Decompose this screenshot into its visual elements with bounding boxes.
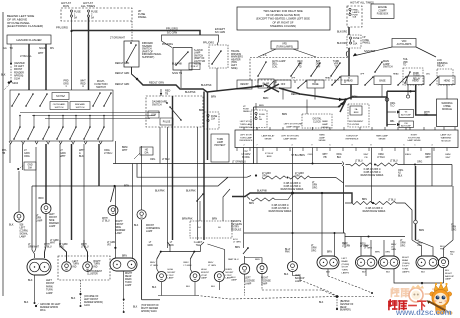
mf row2 contact 1 (14, 127, 20, 139)
park turn relay dashed box (403, 68, 423, 85)
svg-text:PPL/ORG: PPL/ORG (203, 42, 214, 45)
pill left rear stop turn (317, 256, 339, 269)
lamp left license (239, 264, 249, 274)
LCD dimming relay dashed box (437, 69, 453, 85)
module drop x257 (256, 148, 258, 164)
wire drop mf 4 heavy (45, 144, 47, 204)
digital clock dashed box (302, 114, 332, 128)
mf row2 contact 2 (28, 127, 34, 139)
wire x142 to cornering lamp (141, 146, 143, 210)
heavy bus hazard to right (137, 79, 262, 92)
module drop x404 (403, 148, 405, 165)
resistor R4 rejoin (275, 193, 293, 200)
svg-text:www.dzsc.com: www.dzsc.com (395, 308, 452, 317)
svg-text:BLK/ORG: BLK/ORG (337, 43, 347, 45)
lamp left front side marker (14, 212, 24, 222)
svg-text:BLK/PNK: BLK/PNK (440, 246, 445, 251)
turn sw contact 2 (311, 63, 320, 76)
crossover of hazard and turn feeds (264, 84, 279, 92)
fuse A dashed box (347, 35, 361, 48)
vfd fan left (258, 49, 276, 57)
svg-text:2T ORG/WHT: 2T ORG/WHT (110, 37, 126, 40)
warning chime module box (437, 99, 458, 127)
heavy wire fuse A down (348, 48, 350, 76)
run lineC y186 (32, 177, 228, 186)
svg-text:RED/TB: RED/TB (255, 85, 265, 88)
outboard switch box (50, 102, 68, 110)
small box blair (258, 79, 274, 88)
svg-text:PART BLU: PART BLU (228, 258, 239, 261)
svg-text:HEAD: HEAD (346, 80, 353, 83)
module drop x371 (371, 148, 373, 204)
lamp high mount 2 (190, 272, 200, 282)
wire pill3 right (334, 233, 336, 256)
svg-text:BASE: BASE (379, 80, 386, 83)
mf contact 4 (93, 93, 100, 106)
svg-text:BLK/PNK: BLK/PNK (257, 190, 268, 193)
connector bulge (346, 51, 347, 57)
svg-text:BRN: BRN (362, 199, 367, 201)
resistor R5 (350, 163, 372, 166)
svg-text:BLK: BLK (211, 286, 216, 288)
connector contact S4 (197, 194, 203, 201)
module drop x432 (431, 148, 433, 187)
wire from flasher pin 1 (10, 44, 12, 63)
svg-text:BRN: BRN (352, 96, 357, 99)
svg-text:1 A: 1 A (263, 54, 267, 57)
wire hazard sw down (132, 67, 138, 79)
heavy stub up x415 (415, 85, 417, 92)
bracket wire to stop lamp switches (162, 35, 219, 41)
splice to gnd dia (17, 168, 19, 170)
wire stop sw down (180, 70, 182, 88)
svg-text:BRN: BRN (211, 96, 216, 99)
lamp high mount 3 (214, 272, 224, 282)
box drops to bus (282, 88, 284, 100)
small box resist (237, 80, 252, 89)
pill grounds right (327, 269, 329, 276)
switch3 contact (212, 51, 221, 64)
watermark ghost logo (387, 285, 460, 318)
HO DIA box (140, 147, 153, 155)
svg-text:BRN: BRN (39, 198, 44, 200)
wire clock drop (306, 100, 308, 115)
contact off (267, 81, 274, 88)
VFD autolamps box (392, 39, 416, 48)
instrument cluster dashed box (58, 256, 110, 280)
instrument cluster dashed box (348, 104, 369, 127)
svg-text:S/BLU: S/BLU (405, 154, 412, 156)
svg-text:6.195 Ω 6.805 Ω6.065 Ω 6.5: 6.195 Ω 6.805 Ω6.065 Ω 6.595 ΩRESISTANCE… (269, 205, 292, 213)
fuse 2A box (350, 106, 362, 115)
fuse A symbol (349, 37, 351, 39)
hm contact 1 (160, 251, 162, 253)
svg-text:RED/LT GRN: RED/LT GRN (115, 83, 130, 86)
heavy bus right of junction (346, 97, 388, 100)
svg-text:HAZARD FLASHER: HAZARD FLASHER (16, 38, 41, 42)
lamp out warning module box (235, 130, 458, 148)
svg-text:ORG: ORG (417, 162, 422, 164)
trunk x176 (172, 96, 174, 240)
VFD turn lamps box (271, 41, 298, 49)
svg-text:BLK: BLK (24, 302, 29, 304)
wire drop mf 8 heavy (98, 144, 100, 186)
switch3 dashed box (209, 45, 228, 68)
svg-text:PPL/ORG: PPL/ORG (166, 27, 178, 31)
run after R2 (310, 177, 336, 179)
headlight switch contact (170, 107, 181, 120)
watermark red text weiku yixia (388, 302, 390, 310)
mf row2 stubs (19, 116, 21, 128)
mf crossbar 1 (20, 112, 160, 114)
lower feed line (254, 100, 346, 108)
drop to sw3 (217, 41, 219, 45)
svg-text:BRN/WHT: BRN/WHT (122, 146, 128, 152)
node r1 mid (287, 177, 289, 179)
svg-text:TURN/STOPREFERENCE: TURN/STOPREFERENCE (346, 136, 359, 141)
svg-text:S/GN BRT: S/GN BRT (364, 50, 376, 53)
heavy diag stub 1 (338, 101, 346, 107)
wire backup right (444, 240, 454, 257)
node resistor feed (255, 174, 257, 176)
diag feed pill1 (45, 214, 47, 259)
hm wire 3 (208, 244, 225, 250)
wire pillA 2 (370, 240, 372, 256)
pulse box (160, 118, 173, 125)
node main bus junction (344, 98, 347, 101)
mf row2 contact 4 (57, 127, 63, 139)
ground drop (336, 297, 338, 309)
svg-text:RED/LT GRN: RED/LT GRN (115, 72, 130, 75)
turn lamp box right (211, 134, 229, 162)
svg-text:BLK: BLK (133, 307, 138, 309)
svg-text:BRN: BRN (419, 229, 424, 232)
svg-text:NO HAZ: NO HAZ (56, 95, 65, 98)
node lineA drop (312, 163, 314, 165)
fuse B symbol (255, 112, 257, 114)
svg-text:ORG: ORG (150, 159, 155, 161)
rear ground collector (394, 269, 444, 283)
svg-text:BRN: BRN (282, 113, 287, 116)
resistor R1 (262, 176, 286, 179)
svg-text:GA: GA (3, 47, 7, 50)
lamp right backup (438, 257, 448, 267)
heavy wire from headlamp fuse (348, 27, 350, 35)
svg-text:S/GN TN: S/GN TN (172, 72, 182, 75)
wire into S4 right (223, 189, 230, 221)
node ground G404 (336, 295, 339, 298)
svg-text:BLK: BLK (1, 74, 6, 77)
resistor R6 (376, 163, 398, 166)
wire park relay to bus (407, 85, 409, 95)
svg-text:BLK: BLK (28, 279, 33, 282)
wire drop mf 1 (9, 144, 11, 163)
heavy vertical from head box (350, 85, 352, 100)
heavy diag stub 2 (340, 101, 346, 112)
bus PPL/ORG (72, 31, 201, 36)
wire from flasher pin 2 heavy (28, 44, 30, 90)
svg-text:6.195 Ω 6.805 ΩRESISTANCE WIR: 6.195 Ω 6.805 ΩRESISTANCE WIRES (363, 208, 386, 213)
small box base1 (307, 80, 324, 88)
lamp high mount 1 (157, 272, 167, 282)
svg-text:BRN/WHT: BRN/WHT (425, 154, 431, 159)
svg-text:HEAD: HEAD (325, 77, 331, 80)
heavy riser x387 (386, 91, 388, 126)
backup ground (293, 272, 301, 281)
wire pillC 1 (412, 240, 422, 256)
node org drop (414, 164, 416, 166)
mf crossbar 3 (45, 118, 150, 120)
svg-text:POB LT: POB LT (191, 66, 199, 68)
svg-text:BASE: BASE (312, 83, 319, 86)
wire drop mf 5 (59, 144, 61, 240)
node r7 (372, 202, 374, 204)
ground splice dot (35, 305, 37, 307)
wire x197 (197, 127, 199, 240)
svg-text:LT GRN/BLU: LT GRN/BLU (232, 161, 246, 164)
hazard flasher box (7, 35, 51, 44)
turn signal switch dashed box (250, 58, 349, 81)
svg-text:BLK: BLK (319, 302, 324, 304)
wire pill2 right (132, 164, 134, 259)
left border line (2, 12, 4, 296)
turn sw contact 3 (331, 63, 340, 76)
svg-text:PULSE: PULSE (163, 122, 171, 124)
node r5 (374, 164, 376, 166)
dashed ground wire (10, 64, 12, 81)
wire diag to lamp3 (114, 185, 116, 187)
wire backup left (292, 193, 294, 261)
node S1 on PPL/ORG bus (70, 30, 72, 32)
svg-text:LEFT STOP/TURNLAMP SENSE: LEFT STOP/TURNLAMP SENSE (284, 124, 303, 129)
wire into headlight switch (160, 89, 162, 96)
license ground right (261, 274, 263, 279)
svg-text:ORGBLK: ORGBLK (336, 154, 341, 159)
pill right front park turn (110, 258, 137, 271)
node y233 x292 (292, 232, 294, 234)
run y236 (345, 233, 405, 237)
svg-text:RED/LT GRN: RED/LT GRN (115, 62, 130, 65)
vertical drop x253 (253, 107, 255, 164)
svg-text:BLU/PNK: BLU/PNK (285, 249, 290, 254)
watermark mascot (427, 282, 453, 315)
svg-text:6.195 Ω 6.805 Ω6.065 Ω 6.5: 6.195 Ω 6.805 Ω6.065 Ω 6.595 ΩRESISTANCE… (281, 183, 304, 191)
lamp right license (257, 263, 267, 273)
wire pillB 2 (393, 240, 395, 256)
park turn relay contact (405, 72, 410, 83)
svg-text:BRN: BRN (327, 252, 332, 254)
svg-text:BLK: BLK (134, 225, 139, 227)
wire drop mf 6 heavy (71, 144, 73, 240)
svg-text:BLK: BLK (386, 272, 391, 274)
svg-text:OFF: OFF (291, 78, 296, 80)
run after R6 (398, 164, 452, 166)
heavy bus to right side (279, 88, 346, 100)
svg-text:EXCEPTS/C GRN: EXCEPTS/C GRN (215, 28, 226, 34)
no hazard box (52, 93, 69, 100)
stop lamp switch contact (176, 52, 188, 65)
svg-text:BRN: BRN (263, 97, 268, 100)
lamp left turn side (41, 204, 51, 214)
wire sw3 down (216, 68, 218, 91)
vfd fan right (293, 49, 316, 57)
svg-text:BRN: BRN (249, 203, 254, 205)
vertical x343 (343, 166, 345, 233)
connector circle on bus (385, 98, 389, 102)
pill B rear lamps (379, 256, 400, 269)
dashed bus to watermark (337, 296, 374, 298)
wire pillA 1 (360, 237, 362, 257)
wire from flasher pin 3 heavy (45, 44, 47, 90)
pill C rear lamps (416, 256, 439, 269)
low box (148, 111, 159, 118)
svg-text:LEFT STOP/TURNLAMP SENSE: LEFT STOP/TURNLAMP SENSE (281, 136, 299, 141)
hm contact 2 (193, 251, 195, 253)
mf bottom pins (9, 141, 12, 144)
wire x167 (167, 127, 169, 248)
inline connector x415 (414, 220, 418, 224)
wire to left marker lamp (18, 171, 20, 212)
cluster ground dash (80, 280, 82, 293)
contact head2 (365, 77, 373, 85)
svg-text:RESIST: RESIST (240, 84, 249, 86)
mf row2 contact 6 (84, 127, 90, 139)
dashed ground bus (197, 296, 337, 300)
svg-text:LAMP OUTWARNINGMODULE: LAMP OUTWARNINGMODULE (440, 134, 452, 143)
mf contact 5 (104, 93, 111, 106)
wire pill1 left (35, 147, 37, 252)
headlamps fuse dashed box (347, 6, 362, 27)
svg-text:DBL: DBL (390, 121, 395, 123)
diag wire vfd left (353, 47, 392, 56)
headlamps fuse (349, 8, 351, 10)
svg-text:GRN: GRN (385, 252, 390, 254)
run y233 (244, 232, 345, 234)
run lineA y163.5 (113, 163, 342, 165)
dashed drop to hazard switch (131, 21, 133, 42)
svg-text:LT BLU: LT BLU (162, 159, 170, 161)
svg-text:BLK/PNK: BLK/PNK (186, 191, 196, 193)
wire drop mf 7 (83, 144, 85, 240)
headlight switch dashed box (146, 96, 203, 127)
svg-text:BLK: BLK (9, 224, 14, 227)
svg-text:PPL/ORG: PPL/ORG (56, 26, 68, 30)
pill2 ground (123, 271, 125, 300)
contact base1 (298, 81, 306, 88)
hazard switch box (124, 41, 139, 67)
wire fuse1 down (71, 17, 73, 31)
IP fuse panel B dashed box (251, 110, 267, 128)
svg-text:BLK/PNK: BLK/PNK (201, 84, 212, 87)
mf contact 3 (40, 94, 47, 106)
svg-text:BRN: BRN (259, 105, 264, 107)
lamp front cornering (137, 210, 146, 219)
svg-text:BLK: BLK (186, 286, 191, 288)
node x410 (409, 90, 411, 92)
svg-text:HEAD: HEAD (412, 80, 419, 83)
lamp right front marker (108, 206, 118, 216)
wire pill2 left (114, 186, 116, 258)
resistor R3 (251, 198, 275, 201)
svg-text:LT BLU: LT BLU (355, 161, 363, 163)
wire pillC 2 (416, 240, 434, 256)
svg-text:HOT AT ALL TIMES: HOT AT ALL TIMES (350, 1, 374, 5)
wire fuse2 heavy down (88, 17, 90, 90)
small box head-base (341, 76, 358, 85)
svg-text:BRN: BRN (122, 256, 127, 258)
trunk x202 (203, 92, 205, 241)
svg-text:6.195 Ω 6.805 Ω6.065 Ω 6.595: 6.195 Ω 6.805 Ω6.065 Ω 6.595 ΩRESISTANCE… (361, 169, 384, 177)
small box head3 (407, 76, 424, 85)
connector dashed box S4 (190, 221, 232, 238)
hm feed rail (161, 251, 201, 253)
right turn indicator (83, 262, 93, 272)
IP fuse panel dashed box (61, 8, 132, 21)
run lineB y177 (137, 164, 251, 178)
module drop x244 (243, 148, 245, 234)
svg-text:BLK/PNK: BLK/PNK (155, 191, 165, 193)
diag wire vfd right (416, 47, 436, 57)
wire lic right (261, 258, 263, 264)
license feed switch (243, 248, 248, 254)
contact head3 (398, 77, 406, 85)
small box top right of hl switch (189, 63, 200, 70)
location note box (237, 7, 330, 30)
wire fuse1 to multifunction switch (71, 31, 73, 90)
svg-text:WHT: WHT (38, 52, 44, 55)
svg-text:BRN/PNK: BRN/PNK (182, 218, 193, 221)
contact head4 (430, 77, 438, 85)
junction arrows (339, 98, 343, 101)
right edge drop (452, 186, 454, 240)
svg-text:RED/LT GRN: RED/LT GRN (149, 82, 164, 85)
resistor R7 (352, 201, 372, 204)
arrow V10 autolamps (387, 124, 396, 126)
svg-text:BRN/WHT: BRN/WHT (445, 154, 451, 159)
mf contact 1 (12, 94, 19, 106)
mf row2 contact 3 (43, 127, 49, 139)
svg-text:LOW: LOW (151, 115, 157, 117)
svg-text:HEAD: HEAD (444, 80, 451, 83)
wire pillB 1 (383, 240, 385, 256)
svg-text:BRN: BRN (199, 109, 204, 112)
lamp left backup (288, 262, 298, 272)
svg-text:BLK/PNK: BLK/PNK (172, 63, 183, 66)
V3 autolamps box (399, 110, 414, 118)
fuse dashed box brn (204, 112, 219, 129)
svg-text:BRN: BRN (212, 218, 217, 221)
lineA end connector (342, 162, 344, 167)
node lineE big (291, 192, 294, 195)
small box head-base2 (374, 76, 391, 85)
svg-text:S/C GRN: S/C GRN (167, 32, 178, 35)
heavy vertical x415 (415, 166, 417, 220)
svg-text:BLK/PNK: BLK/PNK (185, 91, 196, 94)
hazard switch contact (127, 45, 137, 62)
fuse F1 (70, 10, 72, 12)
fuse 15A symbol (207, 114, 209, 116)
svg-text:LT BLU: LT BLU (390, 161, 398, 163)
svg-text:HEAD: HEAD (393, 73, 399, 76)
wire pill3 left (321, 193, 323, 256)
svg-text:HODIA: HODIA (145, 150, 149, 155)
svg-text:BRN: BRN (375, 252, 380, 254)
run y186 right (345, 165, 452, 187)
wire drop mf 2 (22, 144, 24, 170)
svg-text:ORG: ORG (308, 154, 313, 156)
mf row2 contact 7 (98, 127, 104, 139)
svg-text:OFF: OFF (360, 74, 365, 76)
